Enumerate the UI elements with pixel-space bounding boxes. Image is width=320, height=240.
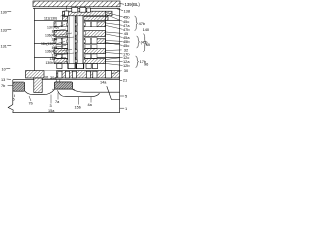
svg-text:MC: MC <box>146 42 150 47</box>
svg-text:14a: 14a <box>100 81 107 85</box>
substrate bottom line <box>13 112 120 114</box>
wire leader to 138 label <box>117 9 123 11</box>
band right boundary vertical <box>105 11 107 70</box>
stack boundary line y57 <box>34 56 119 58</box>
bottom select gate band hatched <box>26 71 120 78</box>
leader for label 3 <box>50 95 52 104</box>
word line band row3 hatched <box>54 22 106 27</box>
word line band row6 hatched <box>54 49 106 54</box>
svg-text:16: 16 <box>44 76 48 80</box>
right fan leader lines <box>106 13 123 75</box>
svg-text:111(130): 111(130) <box>44 17 57 21</box>
substrate break zigzag <box>8 105 13 113</box>
leader for label 6 <box>14 95 16 97</box>
pillar bottom boxes <box>68 64 75 69</box>
substrate left edge vertical <box>12 80 14 105</box>
svg-text:1: 1 <box>125 106 127 111</box>
white gap in bottom band <box>44 71 57 78</box>
pillar inner lines <box>69 16 82 68</box>
word line band row4 hatched <box>54 31 106 37</box>
word line band row2 hatched <box>63 16 109 20</box>
channel pillar A <box>68 16 76 69</box>
svg-text:6: 6 <box>13 98 15 102</box>
layer 138 thin plate <box>33 7 120 9</box>
svg-text:3: 3 <box>50 104 52 108</box>
peripheral gate 13 (left) <box>13 82 25 91</box>
stack boundary line y43 <box>34 43 119 45</box>
svg-text:140: 140 <box>143 27 150 32</box>
staircase contact box rows right of pillars <box>85 22 97 59</box>
left margin labels <box>1 10 7 88</box>
tick for label 1 <box>120 107 125 109</box>
tick for label 5 <box>120 95 125 97</box>
stack left edge vertical <box>33 8 35 70</box>
channel pillar B <box>76 16 84 69</box>
stack boundary line y20 <box>34 19 119 21</box>
bit line 139 (BL) hatched bar <box>33 1 120 7</box>
leader for label 7a <box>57 93 59 100</box>
stack right edge vertical <box>119 8 121 79</box>
tick for label 21 <box>120 79 123 81</box>
svg-text:134: 134 <box>52 37 58 41</box>
leader for label 15b <box>78 97 80 105</box>
BL contact plugs <box>66 6 68 11</box>
pillar top contact boxes <box>65 11 69 16</box>
deep region 14a trapezoid <box>107 86 120 99</box>
svg-text:130: 130 <box>1 10 7 14</box>
junction curve left well <box>25 90 55 95</box>
right column labels <box>123 14 131 110</box>
bottom area labels <box>13 76 108 113</box>
svg-text:96: 96 <box>144 62 148 67</box>
svg-text:131: 131 <box>1 44 7 48</box>
svg-text:15a: 15a <box>48 109 55 113</box>
svg-text:138: 138 <box>124 9 131 14</box>
svg-text:7b: 7b <box>29 102 33 106</box>
word line band row7 hatched <box>54 59 106 64</box>
through contact hatched column <box>34 78 42 93</box>
svg-text:30a: 30a <box>50 76 57 80</box>
wire leader to 139(BL) label <box>120 3 124 6</box>
svg-text:130b: 130b <box>46 61 54 65</box>
svg-text:133: 133 <box>1 28 7 32</box>
in-figure stack labels <box>41 17 59 66</box>
svg-text:5: 5 <box>125 94 127 99</box>
svg-text:13: 13 <box>1 78 5 82</box>
svg-text:10: 10 <box>2 67 6 71</box>
right braces <box>135 16 147 68</box>
leader for label 7b bottom <box>29 96 31 101</box>
junction line right of gate <box>73 89 120 92</box>
svg-text:15b: 15b <box>75 106 81 110</box>
peripheral gate (right) <box>54 82 72 89</box>
lower contact boxes <box>57 64 62 69</box>
deep well curve 7a <box>58 90 100 96</box>
leader for label 4a <box>90 97 92 103</box>
leaders for labels 16 and 5a above gate <box>55 79 58 82</box>
in-figure leader lines to pillars <box>53 15 75 64</box>
word line band row5 hatched <box>54 39 106 44</box>
pillar edge nubs at word line levels <box>66 23 85 62</box>
svg-text:139(BL): 139(BL) <box>125 2 141 7</box>
svg-text:47b: 47b <box>139 21 146 26</box>
white plug in bottom band <box>106 71 112 78</box>
svg-text:21: 21 <box>123 78 127 83</box>
gate baseline <box>52 88 75 90</box>
substrate right edge vertical 2 <box>119 80 121 113</box>
word line band row1 hatched <box>63 11 113 16</box>
substrate surface line 21 <box>13 79 120 81</box>
left label dashes <box>6 12 12 86</box>
svg-text:7b: 7b <box>1 84 5 88</box>
staircase contact box rows left of pillars <box>56 22 68 59</box>
